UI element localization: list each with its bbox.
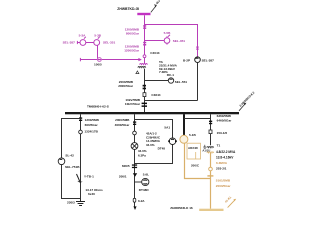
svg-text:DT48: DT48 [158, 146, 166, 150]
transformer T1 secondary winding [207, 152, 214, 153]
wire outgoing feeder arrow (bus right) [239, 104, 245, 110]
breaker 5-1B (orange) [180, 135, 188, 143]
CT donut 100/5 [98, 58, 102, 62]
CT bars 1000/5 [142, 103, 147, 107]
svg-text:SEL-387: SEL-387 [202, 59, 214, 63]
instrument circle on F2 [133, 131, 137, 135]
wire right vertical below B-2P [197, 63, 199, 101]
svg-text:600/5: 600/5 [122, 164, 130, 168]
label TA nameplate [159, 60, 178, 77]
wire to ground [80, 183, 82, 201]
svg-text:6x40: 6x40 [88, 192, 95, 196]
svg-text:100/5: 100/5 [94, 63, 102, 67]
svg-text:TM6BN0-I-62-S: TM6BN0-I-62-S [87, 105, 109, 109]
CT loop box to relay 5A1 [135, 120, 173, 164]
svg-text:4.8/22.2 MVA: 4.8/22.2 MVA [216, 150, 236, 154]
svg-text:200/1: 200/1 [119, 174, 127, 178]
CT bars below box [132, 164, 137, 168]
svg-text:5.6L: 5.6L [143, 172, 149, 176]
box AR24D (orange) [187, 143, 201, 159]
node PT junction circle [79, 130, 83, 134]
svg-text:DT48D: DT48D [139, 188, 150, 192]
svg-text:6.2A: 6.2A [138, 199, 145, 203]
svg-text:1324/17B: 1324/17B [84, 129, 98, 133]
svg-text:6.3MVA: 6.3MVA [216, 161, 228, 165]
wire feeder F2 (x=135) [134, 114, 136, 207]
wire riser from breaker 5-3B [97, 45, 99, 60]
svg-text:230/3: 230/3 [67, 200, 75, 204]
svg-text:B-2P: B-2P [183, 59, 190, 63]
CT on feeder F2 [133, 121, 136, 125]
svg-text:10kV/5Gar: 10kV/5Gar [125, 102, 141, 106]
transformer TA secondary winding [138, 67, 146, 68]
delta winding symbol [136, 71, 139, 74]
svg-text:5A1: 5A1 [164, 126, 170, 130]
svg-text:800/5Gar: 800/5Gar [126, 31, 140, 35]
wire tap to PT branch [62, 119, 81, 199]
bus 4.16kV busbar (orange) [199, 209, 223, 211]
svg-text:6460/5Gar: 6460/5Gar [217, 118, 233, 122]
svg-text:2-4kV: 2-4kV [153, 0, 161, 7]
svg-text:2000/5Gar: 2000/5Gar [216, 184, 232, 188]
CT on feeder F1 [79, 117, 82, 121]
arrow marker on F2 [133, 173, 137, 177]
wire from west group into transformer node [80, 59, 138, 61]
breaker 5-3A [77, 37, 85, 46]
svg-text:SEL-751B: SEL-751B [65, 165, 80, 169]
grounding symbol near T1 [203, 145, 206, 148]
disconnect switch Y-TB-1 [77, 174, 81, 183]
svg-text:1200/5MB: 1200/5MB [85, 118, 100, 122]
svg-text:5-3A: 5-3A [79, 33, 86, 37]
wire tie between 5-1B and T1 feeders [184, 118, 211, 120]
svg-text:5-5B: 5-5B [164, 31, 171, 35]
node small circle above transformer [143, 55, 146, 58]
svg-text:SEL-351: SEL-351 [103, 41, 115, 45]
svg-text:13.8-4.16kV: 13.8-4.16kV [216, 156, 234, 160]
breaker 5-3B [86, 37, 100, 46]
label T1 nameplate [216, 143, 236, 170]
relay DT48D [135, 178, 149, 185]
CT 800/5 on main vertical [143, 25, 146, 29]
wire orange below 5-1B [185, 143, 211, 178]
wire branch to breaker 5-5B [145, 40, 165, 42]
svg-text:2000/5MB: 2000/5MB [115, 118, 130, 122]
wire 13kV vertical below transformer [144, 69, 146, 113]
svg-text:SL-42: SL-42 [65, 154, 74, 158]
wire feeder 5-1B [183, 114, 185, 135]
wire branch to relay SEL-551 [145, 80, 169, 82]
wire outgoing feeder arrow (orange bus) [228, 200, 235, 207]
svg-text:SEL-351: SEL-351 [173, 39, 185, 43]
wire feeder F1 (x=80) [80, 114, 82, 183]
svg-text:2-H6DBKD-K2: 2-H6DBKD-K2 [238, 91, 255, 108]
CT on T1 feeder [209, 121, 212, 125]
svg-text:34.0%: 34.0% [138, 149, 147, 153]
svg-text:4000/5Gar: 4000/5Gar [115, 123, 131, 127]
svg-text:SEL-551: SEL-551 [175, 80, 187, 84]
svg-text:41-K1: 41-K1 [224, 195, 233, 204]
breaker (drawout) on F2 [131, 143, 138, 150]
transformer TA primary winding [140, 64, 148, 65]
relay SEL-551 [168, 78, 173, 83]
fuse box C3644 [143, 93, 146, 97]
wire feeder T1 primary [210, 114, 212, 145]
svg-text:AR24D: AR24D [188, 146, 199, 150]
svg-text:5-1B: 5-1B [189, 133, 196, 137]
CT 1200/5 on main vertical [143, 42, 146, 46]
ground [76, 202, 85, 206]
svg-text:5161/5MB: 5161/5MB [216, 179, 231, 183]
wire incoming line arrow (top) [151, 7, 156, 13]
wire branch to right section [145, 25, 198, 58]
CT on right vertical [196, 47, 199, 50]
instrument circle on T1 secondary [209, 167, 213, 171]
relay SL-42 [58, 158, 65, 165]
bus 69kV main busbar [137, 13, 150, 15]
node open end tick (west) [79, 58, 81, 61]
svg-text:253-2/1: 253-2/1 [216, 167, 227, 171]
breaker 5-5B [164, 35, 170, 45]
transformer T1 primary winding [207, 147, 214, 148]
svg-text:200/C: 200/C [191, 164, 200, 168]
svg-text:ZHWBTKD-GI: ZHWBTKD-GI [117, 7, 139, 11]
relay 5A1 [168, 138, 177, 145]
CT bar on T1 secondary [207, 175, 213, 176]
svg-text:6360/5MB: 6360/5MB [217, 114, 232, 118]
svg-text:600/5Gar: 600/5Gar [85, 123, 99, 127]
switch box 153-1/6 [209, 130, 212, 134]
svg-text:T1: T1 [217, 143, 221, 147]
svg-text:C3644: C3644 [151, 93, 160, 97]
svg-text:Y-TB-1: Y-TB-1 [84, 174, 94, 178]
svg-text:2000/5Gar: 2000/5Gar [118, 84, 134, 88]
label feeder F2 nameplate [138, 132, 165, 158]
breaker B-2P [195, 57, 201, 63]
svg-text:RC-1: RC-1 [167, 73, 174, 77]
svg-text:C3643: C3643 [150, 51, 159, 55]
svg-text:34.0%: 34.0% [146, 143, 155, 147]
wire T1 secondary (orange) [210, 153, 212, 209]
svg-text:6.3Pa: 6.3Pa [138, 153, 146, 157]
fuse bead on F2 [133, 198, 136, 202]
svg-text:SEL-387: SEL-387 [63, 41, 75, 45]
svg-text:ZH6DBKD-K 16: ZH6DBKD-K 16 [170, 206, 193, 210]
bus 13kV main busbar [65, 112, 239, 114]
wire right branch return [145, 100, 198, 102]
svg-text:153-1/6: 153-1/6 [217, 131, 228, 135]
svg-text:1200/5Gar: 1200/5Gar [124, 48, 140, 52]
CT 2000/5 below transformer [143, 85, 146, 89]
wire main 69kV vertical [144, 15, 146, 63]
svg-text:5-3B: 5-3B [94, 33, 101, 37]
